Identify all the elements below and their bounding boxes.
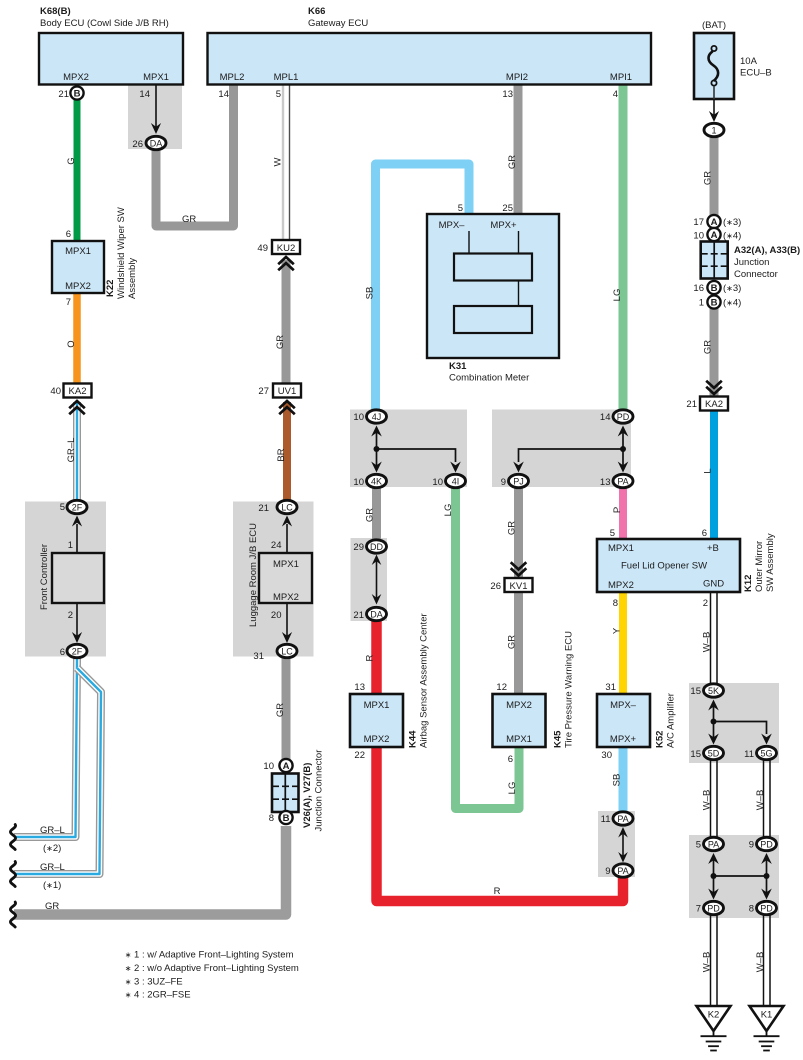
switch K22 Windshield Wiper SW box [52,207,138,299]
svg-text:20: 20 [271,610,282,621]
svg-text:GR: GR [703,171,714,185]
svg-text:10: 10 [353,412,364,423]
break symbol GR-L *1 [10,862,15,887]
connector oval PA pin11 [601,812,633,825]
svg-text:14: 14 [218,89,229,100]
svg-text:K12: K12 [743,575,754,592]
junction circle A pin10 [693,228,741,242]
svg-text:MPL1: MPL1 [274,72,299,83]
svg-text:2: 2 [703,598,708,609]
svg-text:K66: K66 [308,6,325,17]
svg-text:(∗3): (∗3) [723,217,741,228]
svg-text:GR: GR [507,155,518,169]
arrow up into 2F [76,524,78,553]
svg-text:B: B [711,283,718,294]
svg-text:MPX1: MPX1 [364,700,390,711]
svg-text:GR: GR [507,521,518,535]
shade PA/PD/PD/PD block [689,835,779,918]
svg-text:7: 7 [696,904,701,915]
wire GR-L branch to stub *1 [14,668,101,874]
svg-text:A: A [711,217,718,228]
svg-text:GR–L: GR–L [66,438,77,463]
wire W-B 5G to PD [764,759,771,838]
svg-text:MPL2: MPL2 [220,72,245,83]
svg-text:1: 1 [68,540,73,551]
connector oval PA pin5 [696,837,724,850]
svg-text:K68(B): K68(B) [40,6,71,17]
connector oval 2F pin5 [60,500,87,513]
svg-text:B: B [283,813,290,824]
wire GR bottom from V26 B to stub [14,826,286,915]
svg-text:29: 29 [353,542,364,553]
svg-text:LC: LC [281,647,293,657]
svg-text:ECU–B: ECU–B [740,68,772,79]
connector oval LC pin21 [258,500,297,514]
svg-text:5K: 5K [708,686,719,696]
relay box Front Controller [52,553,104,603]
svg-text:GR–L: GR–L [40,825,65,836]
svg-text:SW Assembly: SW Assembly [765,533,776,592]
svg-text:30: 30 [601,750,612,761]
svg-text:10A: 10A [740,56,758,67]
wire LG 4I to K45 MPX1 [456,487,520,809]
connector box UV1 pin27 [258,384,301,398]
svg-text:PD: PD [760,904,773,914]
svg-text:K44: K44 [408,730,419,748]
svg-text:15: 15 [690,749,701,760]
connector oval 5K pin15 [690,684,723,697]
junction dots and link [711,873,717,879]
branch wire to PJ [519,449,624,462]
connector oval PJ pin9 [501,474,529,488]
switch Fuel Lid Opener SW box [597,539,740,592]
junction dot [711,719,717,725]
connector box KU2 pin49 [257,240,300,254]
arrows down into PD and PD [713,876,715,893]
svg-text:15: 15 [690,686,701,697]
svg-text:5: 5 [60,502,65,513]
wire GR-L 2F down to stub *2 [14,658,77,837]
branch wire to 5G [714,722,767,735]
svg-text:MPX2: MPX2 [608,580,634,591]
connector box KA2 pin40 [50,384,91,398]
svg-text:BR: BR [276,448,287,461]
svg-text:Y: Y [612,627,623,634]
svg-text:LG: LG [612,289,623,302]
svg-text:A: A [711,230,718,241]
connector oval PD pin9 [749,837,777,850]
svg-text:25: 25 [502,203,513,214]
junction connector A32/A33 grid box [701,242,728,279]
wire GR from DA to K66 MPL2 [156,84,234,226]
svg-text:8: 8 [749,904,754,915]
svg-text:MPX+: MPX+ [490,220,517,231]
svg-text:7: 7 [66,297,71,308]
branch wire to 4I [377,449,456,462]
svg-text:PD: PD [760,840,773,850]
svg-text:11: 11 [744,749,754,760]
svg-text:8: 8 [613,598,618,609]
svg-text:16: 16 [693,283,704,294]
svg-text:∗ 2 : w/o Adaptive Front–Light: ∗ 2 : w/o Adaptive Front–Lighting System [125,963,299,974]
break symbol GR-L *2 [10,825,15,850]
double arrow PA-PA [622,832,624,858]
arrow down into 4K [376,449,378,466]
wire R DA to K44 MPX1 [371,620,382,694]
arrow down to 2F [76,603,78,637]
shade 4J/4K/4I block [350,410,467,488]
relay box Luggage MPX [259,553,312,603]
svg-text:MPX+: MPX+ [610,734,637,745]
svg-text:Gateway ECU: Gateway ECU [308,18,368,29]
svg-text:MPX1: MPX1 [65,246,91,257]
svg-text:22: 22 [354,750,365,761]
svg-text:SB: SB [612,774,623,787]
connector oval PD pin14 [600,410,633,423]
arrow up into PD [622,430,624,449]
svg-text:Junction: Junction [734,257,769,268]
wire GR PJ to KV1 [514,487,523,578]
svg-text:GR: GR [703,340,714,354]
junction dot [374,446,380,452]
svg-text:27: 27 [258,386,269,397]
svg-text:B: B [711,298,718,309]
svg-text:5: 5 [610,528,615,539]
chevron into KA2 [69,401,85,414]
fuse ECU-B box [694,33,734,99]
svg-text:21: 21 [58,89,69,100]
svg-text:GND: GND [703,579,724,590]
svg-text:A/C Amplifier: A/C Amplifier [666,693,677,748]
wire LG K66 MPI1 to PD [619,84,628,410]
svg-text:KU2: KU2 [277,243,295,254]
connector oval 4I pin10 [432,474,465,488]
svg-text:DA: DA [370,610,383,620]
shade under K68 MPX1 [128,85,182,149]
svg-text:40: 40 [50,386,61,397]
svg-text:∗ 4 : 2GR–FSE: ∗ 4 : 2GR–FSE [125,990,191,1001]
svg-text:14: 14 [139,89,150,100]
svg-text:KA2: KA2 [705,399,723,410]
svg-text:MPX1: MPX1 [143,72,169,83]
chevron into KV1 [511,562,527,575]
svg-text:(∗3): (∗3) [723,283,741,294]
double arrow DD-DA [376,560,378,599]
svg-text:4: 4 [613,89,618,100]
wire GR BAT to A circle [710,136,719,215]
wire SB K52 MPX+ to PA [619,747,628,812]
connector box KV1 pin26 [490,578,532,592]
svg-text:DA: DA [150,139,163,149]
connector box KA2 pin21 [686,397,728,411]
wire W-B GND to 5K [711,592,718,684]
svg-text:R: R [365,654,376,661]
connector oval 2F pin6 [60,644,87,658]
svg-text:6: 6 [60,647,65,658]
svg-text:GR–L: GR–L [40,862,65,873]
svg-text:KV1: KV1 [510,581,528,592]
svg-text:10: 10 [432,477,443,488]
connector oval DA pin26 [132,136,166,150]
svg-text:A32(A), A33(B): A32(A), A33(B) [734,245,800,256]
svg-text:UV1: UV1 [278,386,296,397]
svg-text:Combination Meter: Combination Meter [449,373,529,384]
svg-text:W: W [273,157,284,166]
arrow up into LC [286,524,288,553]
svg-text:(∗1): (∗1) [43,880,61,891]
svg-text:Fuel Lid Opener SW: Fuel Lid Opener SW [621,561,707,572]
connector oval 4J pin10 [353,410,386,423]
svg-text:Luggage Room J/B ECU: Luggage Room J/B ECU [248,523,259,627]
svg-text:9: 9 [501,477,506,488]
connector oval PD pin8 [749,901,777,914]
arrow up into 4J [376,430,378,449]
svg-text:L: L [703,468,714,473]
svg-text:K52: K52 [655,731,666,748]
svg-text:W–B: W–B [755,952,766,973]
wire SB K31 MPX- to 4J [376,164,470,410]
svg-text:(∗4): (∗4) [723,298,741,309]
wire P PA to Fuel Lid MPX1 [619,487,627,539]
svg-text:MPX2: MPX2 [273,592,299,603]
svg-text:Front Controller: Front Controller [39,544,50,610]
svg-text:LC: LC [281,503,293,513]
ECU K68(B) Body ECU box [39,6,183,85]
wire W-B PD to ground K2 [711,915,718,1006]
svg-text:MPX1: MPX1 [506,734,532,745]
svg-text:31: 31 [605,682,616,693]
svg-text:GR: GR [275,335,286,349]
svg-text:Airbag Sensor Assembly Center: Airbag Sensor Assembly Center [419,613,430,748]
svg-text:∗ 1 : w/ Adaptive Front–Lighti: ∗ 1 : w/ Adaptive Front–Lighting System [125,949,294,960]
svg-text:5: 5 [458,203,463,214]
svg-text:21: 21 [258,503,269,514]
svg-text:PD: PD [617,412,630,422]
svg-text:W–B: W–B [702,952,713,973]
svg-text:5G: 5G [760,749,772,759]
svg-text:26: 26 [132,139,143,150]
shade Front Controller [25,502,106,657]
svg-text:W–B: W–B [702,632,713,653]
ECU K45 Tire Pressure box [493,631,575,748]
wire G green K68 MPX2 to K22 [74,98,81,241]
svg-text:K45: K45 [553,730,564,748]
arrowhead into DA [151,123,161,134]
svg-text:GR: GR [275,703,286,717]
svg-text:Tire Pressure Warning ECU: Tire Pressure Warning ECU [564,631,575,748]
junction circle A pin17 [693,215,741,228]
svg-text:O: O [66,340,77,347]
svg-text:Junction Connector: Junction Connector [314,750,325,832]
chevron into KU2 [278,257,294,270]
wire GR B circle to KA2 chevron [710,308,719,397]
svg-text:6: 6 [66,229,71,240]
svg-text:LG: LG [443,504,454,517]
arrow down into PJ [513,462,524,473]
svg-text:Assembly: Assembly [127,258,138,299]
svg-text:(∗2): (∗2) [43,843,61,854]
svg-text:MPX2: MPX2 [63,72,89,83]
wire R K44 MPX2 to PA [377,747,624,901]
wire GR K66 MPI2 to K31 MPX+ [514,84,523,214]
connector oval LC pin31 [253,644,297,662]
svg-text:2: 2 [68,610,73,621]
svg-text:K31: K31 [449,361,467,372]
svg-text:4K: 4K [371,477,382,487]
wire BR UV1 to LC [283,402,291,500]
ECU K44 Airbag Sensor box [350,613,430,748]
svg-text:5: 5 [696,840,701,851]
svg-text:∗ 3 : 3UZ–FE: ∗ 3 : 3UZ–FE [125,976,183,987]
arrow down into 5G [761,734,772,745]
svg-text:+B: +B [707,543,719,554]
svg-text:A: A [283,761,290,772]
arrow down to LC [286,603,288,637]
svg-text:9: 9 [749,840,754,851]
svg-text:MPI1: MPI1 [610,72,632,83]
svg-text:KA2: KA2 [69,386,87,397]
wire GR KV1 to K45 MPX2 [514,591,523,694]
svg-text:10: 10 [263,761,274,772]
svg-text:11: 11 [601,814,611,825]
svg-text:PA: PA [617,866,628,876]
wire GR LC to V26 A [282,658,291,759]
connector circle B pin21 [70,86,83,99]
svg-text:K1: K1 [761,1010,773,1021]
arrows up into PA and PD [713,858,715,876]
connector oval 5G pin11 [744,746,776,760]
chevron into UV1 [279,401,295,414]
break symbol GR [10,902,15,927]
wire GR-L KA2 to 2F [73,402,81,501]
arrow up into 5K [713,704,715,722]
svg-text:Body ECU (Cowl Side J/B RH): Body ECU (Cowl Side J/B RH) [40,18,169,29]
svg-text:17: 17 [693,217,704,228]
svg-text:5D: 5D [708,749,720,759]
connector oval DD pin29 [353,540,386,553]
junction connector V26/V27 circle B pin8 [269,811,293,824]
svg-text:PA: PA [617,477,628,487]
svg-text:2F: 2F [72,647,83,657]
junction circle B pin16 [693,281,741,294]
svg-text:(∗4): (∗4) [723,231,741,242]
svg-text:MPX2: MPX2 [65,281,91,292]
wire W-B PD to ground K1 [764,915,771,1006]
svg-text:Windshield Wiper SW: Windshield Wiper SW [116,207,127,299]
svg-text:PD: PD [707,904,720,914]
svg-text:GR: GR [45,901,59,912]
svg-text:G: G [66,157,77,164]
svg-text:B: B [74,89,81,100]
wire GR KU2 to UV1 [282,260,291,384]
connector oval PA pin13 [600,474,633,488]
connector oval DA pin21 [353,607,386,621]
svg-text:13: 13 [354,682,365,693]
svg-text:31: 31 [253,651,264,662]
svg-text:MPX–: MPX– [439,220,466,231]
svg-text:Outer Mirror: Outer Mirror [754,541,765,592]
svg-text:8: 8 [269,813,274,824]
svg-text:14: 14 [600,412,611,423]
svg-text:SB: SB [365,287,376,300]
svg-text:10: 10 [693,231,704,242]
svg-text:1: 1 [711,126,716,136]
svg-text:13: 13 [600,477,611,488]
junction connector V26/V27 grid box [272,774,299,813]
wire W-B 5D to PA [711,759,718,838]
svg-text:MPX2: MPX2 [364,734,390,745]
shade 5K/5D/5G block [689,683,779,763]
ground K1 [750,1006,784,1051]
wire O K22 to KA2 [73,293,81,384]
arrowhead into oval 1 [709,111,719,122]
svg-text:MPX1: MPX1 [608,543,634,554]
wire GR 4K to DD [372,487,381,540]
svg-text:R: R [494,886,501,897]
ECU K66 Gateway ECU box [208,6,652,85]
svg-text:V26(A), V27(B): V26(A), V27(B) [302,763,313,828]
svg-text:4J: 4J [372,412,382,422]
wire thin fuse to arrow [713,99,715,116]
svg-text:4I: 4I [452,477,460,487]
svg-text:Connector: Connector [734,269,778,280]
svg-text:MPX1: MPX1 [273,559,299,570]
svg-text:49: 49 [257,243,268,254]
wire thin MPX1 to DA [155,85,157,128]
junction dot [620,446,626,452]
svg-text:W–B: W–B [755,790,766,811]
arrow down into 4I [450,462,461,473]
svg-text:MPX2: MPX2 [506,700,532,711]
svg-text:(BAT): (BAT) [702,20,726,31]
svg-text:PJ: PJ [513,477,524,487]
svg-text:10: 10 [353,477,364,488]
svg-text:K2: K2 [708,1010,720,1021]
arrow down into 5D [713,722,715,739]
connector oval 4K pin10 [353,474,386,488]
svg-text:1: 1 [699,298,704,309]
connector oval 1 [704,123,724,136]
svg-text:GR: GR [507,635,518,649]
shade Luggage Room J/B ECU [233,502,314,657]
svg-text:PA: PA [708,840,719,850]
svg-text:2F: 2F [72,503,83,513]
wire L KA2 to Fuel Lid +B [710,410,718,539]
svg-text:DD: DD [370,542,383,552]
svg-text:P: P [612,507,623,513]
connector oval PD pin7 [696,901,724,914]
svg-text:PA: PA [617,814,628,824]
svg-text:24: 24 [271,540,282,551]
svg-text:6: 6 [508,754,513,765]
svg-text:GR: GR [365,508,376,522]
wire Y Fuel Lid MPX2 to K52 [619,592,627,694]
svg-text:6: 6 [702,528,707,539]
ground K2 [697,1006,731,1051]
junction circle B pin1 [699,295,742,308]
arrow down into PA [622,449,624,466]
svg-text:5: 5 [276,89,281,100]
svg-text:9: 9 [605,866,610,877]
svg-text:12: 12 [496,682,507,693]
ECU K52 A/C Amplifier box [597,693,677,748]
connector oval 5D pin15 [690,746,723,760]
svg-text:13: 13 [502,89,513,100]
svg-text:LG: LG [507,782,518,795]
svg-text:MPI2: MPI2 [506,72,528,83]
svg-text:GR: GR [182,214,196,225]
svg-text:W–B: W–B [702,790,713,811]
